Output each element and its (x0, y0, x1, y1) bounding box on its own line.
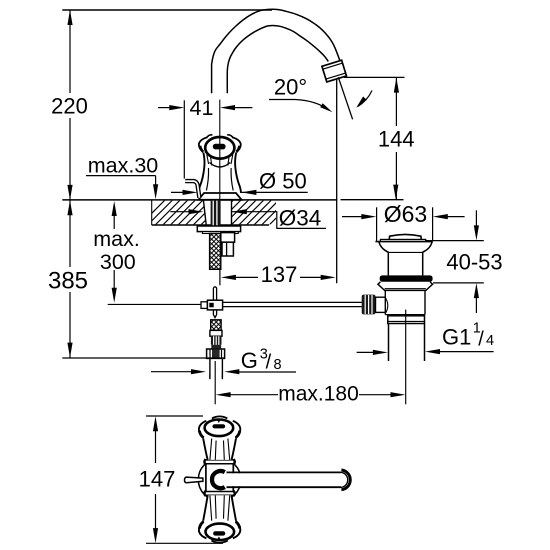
horizontal pop-up rod to drain (223, 301, 362, 303)
threaded shank below deck (210, 234, 221, 270)
tick 385 bottom (62, 357, 224, 359)
top handle cap (205, 420, 234, 437)
rod below coupler (213, 310, 216, 318)
svg-text:300: 300 (100, 250, 136, 274)
handle left lobe (199, 137, 207, 152)
supply pipe (209, 359, 211, 379)
body column inner lines (206, 168, 233, 191)
drain flange sides (379, 242, 388, 276)
dimension 137 (221, 275, 236, 280)
G3/8 extension stubs (209, 374, 211, 379)
supply thread crosshatch (211, 320, 221, 331)
horizontal pop-up rod (thin left part) (108, 303, 201, 305)
deck hatching (140, 200, 310, 225)
drain bottom collar (385, 314, 425, 316)
pop-up rod vertical (213, 287, 216, 301)
20deg angle arc (358, 91, 372, 107)
supply small band (211, 345, 221, 349)
svg-text:8: 8 (274, 357, 282, 373)
spout tube arc (212, 9, 340, 93)
handle top arcs (207, 135, 234, 138)
dimension 41 (158, 107, 170, 109)
faucet centre extension line (219, 270, 221, 286)
svg-text:20°: 20° (274, 75, 307, 100)
deck band left edge (151, 200, 153, 225)
drain plug lip (380, 239, 425, 241)
dimension G1 1/4 (357, 351, 373, 353)
base escutcheon (198, 193, 241, 200)
pop-up lever rod (185, 181, 199, 198)
bottom handle skirt (203, 495, 235, 520)
svg-text:147: 147 (139, 466, 176, 491)
top handle arm band (205, 460, 234, 464)
spout tip collar (322, 60, 347, 82)
handle right lobe (232, 137, 240, 152)
deck surface line (62, 199, 337, 201)
top handle lobes (199, 421, 207, 438)
drain tailpipe (388, 324, 390, 362)
bottom handle lobes (199, 521, 207, 538)
svg-text:G1: G1 (442, 325, 471, 350)
svg-text:Ø34: Ø34 (279, 206, 322, 231)
handle indicator bar (213, 144, 226, 150)
svg-text:144: 144 (378, 127, 415, 152)
drain axis line (405, 310, 407, 405)
dia63 extension lines (376, 207, 378, 241)
top handle rim tab (212, 416, 227, 418)
drain knurled knob (362, 295, 376, 315)
spout bar (220, 473, 340, 486)
svg-text:max.: max. (93, 227, 140, 251)
svg-text:max.180: max.180 (278, 383, 359, 406)
svg-text:/: / (266, 352, 272, 374)
drain flange top (375, 241, 432, 243)
dimension 40-53 (475, 210, 477, 227)
svg-text:/: / (478, 328, 484, 350)
deck band bottom line (152, 224, 269, 226)
dimension 220/385 line (69, 10, 71, 93)
dimension dia63 (342, 216, 363, 218)
skirt outlines (199, 152, 205, 193)
handle cap ellipse (205, 137, 234, 159)
drain lower flare (378, 282, 433, 291)
bottom handle rim tab (211, 541, 227, 543)
supply knurled section (211, 336, 222, 345)
drain seal ring (380, 275, 433, 281)
arrows 220/385 (67, 10, 72, 25)
svg-text:4: 4 (486, 333, 494, 349)
pop-up lever (top view) (184, 477, 202, 483)
dimension dia34 (170, 211, 189, 213)
dimension max.180 (216, 392, 231, 397)
skirt inner U (210, 163, 231, 168)
supply axis line (214, 361, 216, 404)
body side edges (205, 464, 207, 492)
knob connector block (376, 297, 386, 312)
mounting hole left edge (203, 200, 206, 225)
svg-text:220: 220 (51, 94, 88, 119)
svg-text:Ø63: Ø63 (384, 201, 427, 227)
threaded shank through deck (211, 201, 221, 226)
bottom handle arm band (205, 492, 234, 496)
drain plug cap (389, 234, 422, 241)
body circle (top view) (198, 458, 241, 501)
top handle skirt (203, 439, 235, 460)
svg-text:385: 385 (48, 268, 88, 295)
20deg leader (269, 100, 329, 111)
white gap in tube for 41 dimension (210, 94, 231, 122)
top reference line (62, 9, 272, 11)
skirt streak lines (207, 155, 233, 166)
spout bar end cap (341, 470, 350, 490)
stream vertical line (336, 79, 338, 283)
max.30 leader (86, 175, 156, 177)
mounting nut (221, 233, 235, 243)
svg-text:41: 41 (190, 96, 214, 120)
svg-text:Ø 50: Ø 50 (259, 169, 307, 194)
svg-text:G: G (241, 348, 258, 373)
dimension G3/8 (151, 371, 192, 373)
supply nut (207, 349, 225, 358)
mounting hole right edge (231, 200, 233, 225)
dia34 leader (232, 212, 326, 229)
svg-text:40-53: 40-53 (446, 249, 502, 274)
dimension 144 (344, 76, 405, 78)
dimension dia50 (171, 191, 189, 193)
max.300 dimension (113, 216, 115, 229)
bottom handle cap (206, 524, 235, 540)
svg-text:max.30: max.30 (88, 154, 159, 178)
dimension 147 (146, 415, 203, 417)
drain body (384, 290, 386, 314)
stream slant line (338, 77, 352, 119)
spout pivot C-collar (212, 471, 225, 488)
svg-text:137: 137 (261, 262, 298, 287)
rod coupler (201, 302, 207, 309)
washer plate (197, 226, 240, 232)
supply collar (210, 330, 222, 336)
